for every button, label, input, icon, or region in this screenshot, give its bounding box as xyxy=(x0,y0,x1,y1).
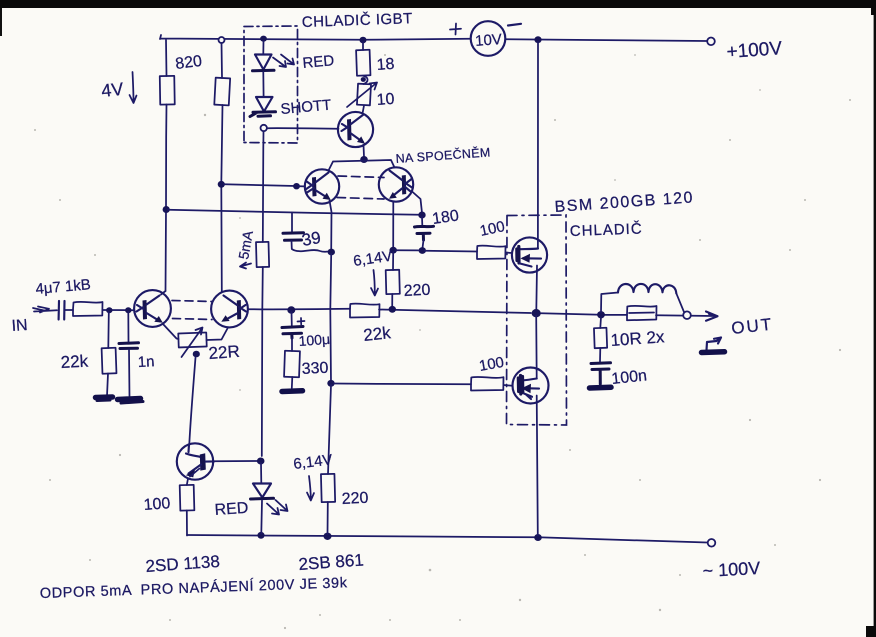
wire x166 bus: rail to 820 xyxy=(165,40,168,76)
node x166 at y210 line xyxy=(163,206,170,213)
capacitor C 100n electrolytic with plus xyxy=(282,327,303,339)
svg-text:10V: 10V xyxy=(475,31,503,50)
svg-text:1n: 1n xyxy=(137,353,155,371)
resistor R 5mA set resistor xyxy=(256,242,269,267)
resistor R2 (second bias resistor) xyxy=(214,78,230,106)
wire cap to 1k8 xyxy=(65,309,73,311)
svg-text:+100V: +100V xyxy=(726,38,783,63)
wire x222 bus: rail terminal down to resistor xyxy=(221,43,224,78)
wire LED chain: rail to LED anode xyxy=(262,41,264,54)
diode D RED lower led xyxy=(253,484,271,498)
svg-text:~ 100V: ~ 100V xyxy=(702,558,761,581)
capacitor C 180 xyxy=(421,217,423,225)
svg-text:IN: IN xyxy=(11,317,28,335)
resistor R 18 xyxy=(356,50,370,76)
inductor L output coil xyxy=(601,293,618,313)
dashed thermal coupling between Q4 and Q5 xyxy=(338,176,384,178)
wire 22k input down lead xyxy=(107,312,110,348)
arrow 4V down arrow xyxy=(130,72,137,103)
transistor Q5 right driver (mirrored) xyxy=(379,167,413,201)
capacitor C 100n zobel xyxy=(591,363,611,384)
transistor Q4 left driver xyxy=(305,169,339,203)
wire gate resistor to IGBT2 xyxy=(504,384,513,387)
wire 18 to trimmer with loop xyxy=(363,76,368,84)
resistor R 1kB input series xyxy=(73,302,103,316)
arrow 22R wiper arrow xyxy=(182,328,203,358)
capacitor C 39 xyxy=(291,213,293,232)
node 180 bottom / gate line junction xyxy=(419,247,426,254)
wire top supply rail right segment xyxy=(506,39,707,41)
node open circle below schottky xyxy=(261,125,267,131)
resistor R 220 upper xyxy=(386,270,400,294)
svg-text:4V: 4V xyxy=(100,79,124,101)
svg-text:RED: RED xyxy=(214,500,249,519)
wire mid signal rail: IGBT bus to zobel node xyxy=(541,313,601,315)
svg-text:820: 820 xyxy=(174,53,203,73)
arrow trimmer adjustment arrow xyxy=(347,83,377,108)
capacitor C 1n xyxy=(119,343,139,349)
wire base lead of Q4 xyxy=(299,185,305,187)
scan edge: top black bar xyxy=(0,0,876,8)
transistor T1 input left xyxy=(134,290,171,327)
wire mid signal rail: 22k to IGBT bus xyxy=(379,310,531,314)
wire x222 bus: resistor down to node and T2 collector xyxy=(221,105,222,292)
svg-text:CHLADIČ: CHLADIČ xyxy=(570,220,643,240)
wire wiper line down to lower driver base xyxy=(189,358,195,445)
wire rail node down to 18 resistor xyxy=(362,42,364,50)
dashed box IGBT module outline xyxy=(507,215,567,425)
wire 39 cap bottom squiggle to emitter bus xyxy=(292,241,332,252)
node zobel junction on mid rail xyxy=(597,311,605,318)
node top rail to 18-ohm chain xyxy=(360,37,367,44)
node bottom rail to RED led xyxy=(257,532,264,539)
diode D RED led xyxy=(255,55,272,70)
resistor R 10R damping (horizontal) xyxy=(627,306,657,320)
resistor R 22k feedback on mid rail xyxy=(350,304,380,318)
resistor R 220 lower xyxy=(321,474,335,502)
resistor R 330 xyxy=(284,351,300,378)
node top rail to IGBT drain bus xyxy=(534,36,541,43)
scan edge: left notch xyxy=(0,8,2,36)
potentiometer R 22R emitter trimmer xyxy=(178,332,206,347)
diode D schottky SHOTT xyxy=(256,97,273,112)
resistor R 100 lower driver xyxy=(180,485,195,511)
svg-text:220: 220 xyxy=(403,282,431,300)
resistor R 100 upper gate xyxy=(477,246,506,259)
svg-text:18: 18 xyxy=(376,56,395,74)
wire IGBT drain bus from top rail xyxy=(537,42,539,249)
wire bottom supply rail xyxy=(187,535,707,543)
scan edge: bottom-right blob xyxy=(866,626,876,637)
node bottom rail to IGBT source bus xyxy=(534,534,542,541)
wire IGBT2 source down to bottom rail xyxy=(537,396,538,536)
wire RED cathode to bottom rail xyxy=(260,501,263,534)
IGBT U1 upper xyxy=(512,237,547,272)
wire out arrowhead xyxy=(706,312,718,321)
svg-text:39: 39 xyxy=(300,228,322,250)
transistor Q3 vbe multiplier xyxy=(338,112,373,147)
node base of left driver xyxy=(293,183,300,189)
wire 180 bottom lead xyxy=(423,240,424,248)
wire trimmer to Q3 collector xyxy=(363,106,365,114)
arrow LED light arrows xyxy=(273,55,294,68)
node 39-cap / Q4 emitter junction xyxy=(328,249,335,256)
wire 220 lower to bottom rail xyxy=(327,502,329,534)
wire mid signal rail: 10R to out arrow xyxy=(656,314,714,317)
node y215 cap-180 top junction xyxy=(418,212,425,219)
potentiometer R 10 trimmer xyxy=(357,84,371,106)
wire y250 gate line from emitter node to 100 xyxy=(396,250,477,251)
svg-text:100: 100 xyxy=(143,495,171,514)
svg-text:22R: 22R xyxy=(208,342,240,363)
wire lower gate line from x331 node xyxy=(334,383,471,386)
svg-text:10: 10 xyxy=(376,91,395,109)
dashed thermal coupling between T1 and T2 xyxy=(172,301,212,302)
wire IGBT1 source to mid rail xyxy=(535,266,538,312)
resistor R 10R zobel (vertical) xyxy=(594,328,607,348)
wire 22R right side to T2 emitter xyxy=(207,328,229,341)
arrow 6,14V lower down arrow xyxy=(307,476,314,501)
svg-text:10R 2x: 10R 2x xyxy=(610,327,666,350)
wire T1 collector up to x166 bus xyxy=(161,291,166,295)
transistor Q6 lower driver xyxy=(177,443,213,479)
wire y185 line to driver pair base xyxy=(224,184,296,186)
wire 1n cap down lead xyxy=(127,312,129,342)
resistor R 22k input xyxy=(102,348,117,374)
node top rail to LED chain xyxy=(260,36,267,42)
label minus polarity of meter xyxy=(508,24,521,26)
wire gate resistor to IGBT1 xyxy=(506,252,513,255)
wire 22k to ground xyxy=(107,374,108,397)
wire RED anode lead xyxy=(260,463,262,483)
wire zobel node down to 10R vertical xyxy=(599,317,602,328)
transistor T2 input right (mirrored) xyxy=(211,291,248,328)
node inductor end open circle xyxy=(683,311,691,319)
svg-text:22k: 22k xyxy=(362,323,392,345)
node -100V open terminal xyxy=(708,539,716,547)
wire x263 bus: 5mA resistor down to lower driver node xyxy=(262,267,263,456)
wire 1k8 to T1 base with nodes xyxy=(102,309,134,311)
node Q6 emitter / x263 bus / RED anode xyxy=(257,458,265,465)
wire top supply rail left segment xyxy=(160,35,470,40)
wire 10R to 100n xyxy=(599,348,601,362)
wire Q3 emitter down to common node xyxy=(363,145,366,157)
node input bias divider right xyxy=(125,307,131,313)
wire IN lead with arrow xyxy=(33,307,57,313)
wire Q4 emitter bus x331 top xyxy=(330,201,332,253)
node bottom rail to 220 resistor xyxy=(324,533,332,540)
ground below zobel 100n xyxy=(590,385,612,391)
wire x263 bus: schottky node down to 5mA resistor xyxy=(262,131,265,242)
svg-text:220: 220 xyxy=(341,490,369,508)
arrow 6,14V down arrow upper xyxy=(371,270,378,296)
node upper 220 at mid rail xyxy=(389,306,396,313)
ground output reference symbol with arrow xyxy=(707,338,722,351)
wire 100n top lead xyxy=(291,312,293,326)
wire 100n to 330 xyxy=(291,338,293,351)
wire x331 bus down to lower 220 xyxy=(328,385,331,474)
wire upper 220 leads xyxy=(392,252,393,307)
wire y212 horizontal line xyxy=(168,210,420,215)
wire 1n to ground xyxy=(128,350,131,398)
IGBT U2 lower xyxy=(513,368,549,404)
wire 330 to ground xyxy=(291,377,294,388)
wire mid rail node down to IGBT2 drain xyxy=(535,316,538,379)
node Q3 emitter / driver pair collectors xyxy=(360,156,368,163)
wire x166 bus: 820 down to y210 node and T1 collector xyxy=(166,105,167,292)
arrow RED lower light arrows xyxy=(267,500,288,515)
ground below 330 xyxy=(282,388,303,394)
node x331 at y383 gate line xyxy=(327,380,334,387)
wire Q5 emitter down to y250 node xyxy=(392,202,394,249)
wire schottky node to Q3 base xyxy=(267,127,339,130)
wire mid signal rail: T2 base to 22k xyxy=(248,308,350,311)
wire LED cathode to schottky anode xyxy=(262,72,264,97)
wire 100 down to bottom rail xyxy=(186,511,188,536)
meter U1 10V voltmeter xyxy=(471,21,506,56)
ground below 1n xyxy=(118,399,141,400)
label plus polarity of meter xyxy=(450,24,461,35)
wire Q6 collector down to 100 xyxy=(187,479,188,486)
node Q5 emitter / upper 220 junction xyxy=(390,247,397,254)
resistor R 820 xyxy=(160,76,175,105)
wire T1 emitter to 22R left xyxy=(163,324,179,340)
wire x331 bus down through mid rail to lower gate node xyxy=(329,254,332,383)
node +100V open terminal xyxy=(707,38,715,46)
node input bias divider left xyxy=(106,307,112,313)
wire Q6 emitter to RED node xyxy=(214,460,259,462)
ground below 22k input xyxy=(96,394,113,400)
scan edge: right black line xyxy=(874,0,876,637)
node 100n junction on mid rail xyxy=(287,306,295,314)
svg-text:RED: RED xyxy=(302,52,335,72)
capacitor C 4u7 input cap xyxy=(59,301,65,320)
wire y161 link line between driver collectors xyxy=(329,160,395,170)
node 22R wiper tap xyxy=(193,351,200,358)
node open terminal on rail (820 branch) xyxy=(219,37,225,43)
svg-text:100μ: 100μ xyxy=(298,331,330,349)
svg-text:22k: 22k xyxy=(60,352,89,372)
node x222 at y184 xyxy=(218,181,225,188)
dashed box around LED chain xyxy=(244,26,298,143)
wire mid signal rail: zobel node to 10R xyxy=(604,314,627,316)
node IGBT bus at mid rail xyxy=(532,309,541,317)
resistor R 100 lower gate xyxy=(471,377,504,391)
svg-text:330: 330 xyxy=(301,360,329,378)
arrow 5mA pointer xyxy=(240,263,251,269)
wire Q5 base lead to cap-180 node xyxy=(412,191,423,213)
